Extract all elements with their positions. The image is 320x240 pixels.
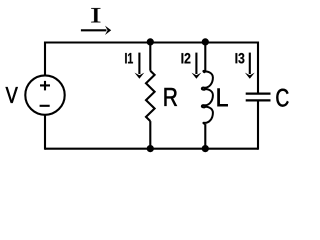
capacitor C1 top plate xyxy=(246,92,271,94)
wire right lower xyxy=(257,101,259,149)
wire R branch top xyxy=(149,43,151,71)
voltage source V1 xyxy=(25,75,64,114)
capacitor C1 bottom plate xyxy=(246,99,271,101)
wire bottom node xyxy=(45,148,258,150)
label I (current) xyxy=(91,8,100,22)
arrow I (top) xyxy=(81,29,107,31)
wire left lower xyxy=(44,114,46,150)
label C xyxy=(276,89,288,107)
node junction bottom L xyxy=(202,145,209,152)
label R xyxy=(165,88,177,106)
resistor R1 xyxy=(146,71,155,121)
node junction top L xyxy=(202,38,209,45)
node junction bottom R xyxy=(147,145,154,152)
wire left upper xyxy=(44,42,46,77)
wire L branch bottom xyxy=(204,124,206,149)
node junction top R xyxy=(147,38,154,45)
label I3 xyxy=(236,53,245,63)
wire top node xyxy=(45,41,258,43)
wire right upper xyxy=(257,42,259,93)
inductor L1 xyxy=(202,71,213,124)
minus sign xyxy=(40,105,50,107)
label I2 xyxy=(182,53,191,63)
label I1 xyxy=(125,53,133,63)
arrow I3 xyxy=(249,53,251,74)
plus sign xyxy=(40,81,50,91)
wire R branch bottom xyxy=(149,121,151,149)
label V xyxy=(6,87,18,103)
arrow I1 xyxy=(138,53,140,74)
label L xyxy=(218,89,228,107)
arrow I2 xyxy=(195,53,197,74)
wire L branch top xyxy=(204,43,206,72)
